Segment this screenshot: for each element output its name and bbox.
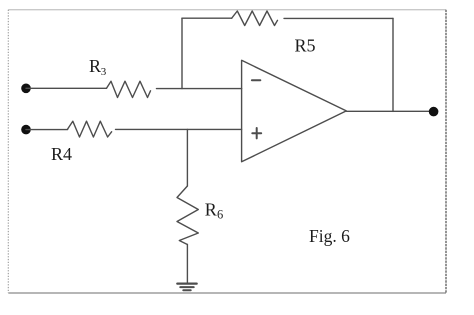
resistor R5 xyxy=(232,11,278,26)
op-amp plus sign xyxy=(252,128,261,138)
svg-text:Fig. 6: Fig. 6 xyxy=(309,226,350,246)
border frame top xyxy=(8,9,446,11)
border frame left xyxy=(7,10,9,293)
svg-text:R4: R4 xyxy=(51,144,72,164)
border frame bottom xyxy=(8,292,446,294)
resistor R6 xyxy=(177,186,198,245)
svg-text:3: 3 xyxy=(101,66,107,78)
op-amp U1 xyxy=(242,60,347,162)
wire R3 to op-amp inverting input xyxy=(157,88,242,90)
op-amp minus sign xyxy=(252,79,260,81)
wire input2 to R4 xyxy=(26,129,68,131)
ground xyxy=(177,283,196,285)
resistor R3 xyxy=(107,81,151,97)
wire op-amp output xyxy=(346,110,433,112)
wire feedback top right xyxy=(284,17,393,19)
node output (dot) xyxy=(429,107,439,117)
wire R6 branch vertical xyxy=(186,130,188,187)
svg-text:6: 6 xyxy=(217,208,223,222)
wire input1 to R3 xyxy=(26,87,107,89)
svg-text:R: R xyxy=(205,200,217,220)
node input 1 (dot) xyxy=(21,84,31,94)
wire feedback right vertical xyxy=(392,18,394,111)
svg-text:R5: R5 xyxy=(295,36,316,56)
wire feedback left vertical xyxy=(181,18,183,88)
wire R6 to ground xyxy=(186,245,188,284)
svg-text:R: R xyxy=(89,56,101,76)
border frame right xyxy=(445,10,447,293)
resistor R4 xyxy=(68,121,112,137)
wire feedback top left xyxy=(182,17,232,19)
wire R4 to op-amp non-inverting input xyxy=(116,128,242,130)
node input 2 (dot) xyxy=(21,125,31,135)
